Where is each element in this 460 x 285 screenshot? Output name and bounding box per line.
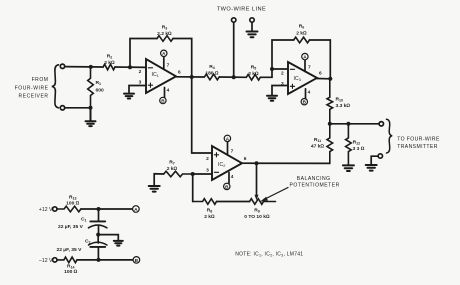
op-amp IC3 xyxy=(288,62,317,94)
node IC3 output xyxy=(328,77,332,81)
node R1 bottom xyxy=(89,106,93,110)
wire two-wire right to ground xyxy=(251,22,253,31)
wire bottom input row xyxy=(65,107,91,109)
power circle A (IC3 pin7) xyxy=(302,53,308,59)
resistor R10 xyxy=(327,79,333,124)
pin 4 stub IC1 xyxy=(164,88,166,98)
label R6 2k xyxy=(296,24,307,37)
svg-text:B: B xyxy=(135,258,139,264)
node two-wire tap xyxy=(232,75,236,79)
terminal +12V xyxy=(53,207,57,211)
svg-text:NOTE: IC1, IC2, IC3, LM741: NOTE: IC1, IC2, IC3, LM741 xyxy=(235,252,303,258)
svg-text:3: 3 xyxy=(139,80,142,86)
wire R7 to ground xyxy=(154,174,164,185)
power circle B (IC1 pin4) xyxy=(160,97,166,103)
terminal -12V xyxy=(53,258,57,262)
wire IC1 output xyxy=(176,76,204,78)
node IC2 pin3 xyxy=(191,172,195,176)
pin 7 stub IC1 xyxy=(163,57,165,70)
label R5 2k xyxy=(248,65,259,78)
label R12 xyxy=(353,140,365,153)
node cap midpoint xyxy=(96,233,100,237)
wiper arrow R9 xyxy=(256,163,258,195)
svg-text:6: 6 xyxy=(319,71,322,77)
svg-text:2: 2 xyxy=(139,69,142,75)
wire R8 to R9 xyxy=(217,201,250,203)
label R8 2k xyxy=(204,208,215,221)
node R1 top xyxy=(89,65,93,69)
resistor R2 xyxy=(103,64,115,70)
label FROM FOUR-WIRE RECEIVER xyxy=(15,77,49,100)
svg-text:7: 7 xyxy=(167,63,170,69)
svg-text:TWO-WIRE LINE: TWO-WIRE LINE xyxy=(217,7,266,13)
wire R4 to R5 xyxy=(219,76,246,78)
svg-text:RECEIVER: RECEIVER xyxy=(19,94,49,100)
node IC2 output xyxy=(255,161,259,165)
ground IC1 pin3 xyxy=(124,94,134,99)
resistor R4 xyxy=(204,74,219,80)
wire R5 to IC3 xyxy=(260,69,288,77)
capacitor C2 xyxy=(97,235,99,243)
svg-text:2.2 kΩ: 2.2 kΩ xyxy=(157,31,172,37)
terminal transmitter bottom xyxy=(378,154,382,158)
svg-text:3: 3 xyxy=(206,168,209,174)
label R7 2k xyxy=(167,160,178,173)
brace right xyxy=(387,119,393,153)
svg-text:FOUR-WIRE: FOUR-WIRE xyxy=(15,86,49,92)
svg-text:2 kΩ: 2 kΩ xyxy=(248,71,259,77)
label R10 3.3k xyxy=(336,97,351,110)
svg-text:A: A xyxy=(134,207,138,213)
terminal IN bottom xyxy=(60,106,64,110)
svg-text:–12 V: –12 V xyxy=(39,258,53,264)
wire IC3 output xyxy=(317,78,330,80)
svg-text:2 kΩ: 2 kΩ xyxy=(296,31,307,37)
pin 4 stub IC2 xyxy=(228,173,230,184)
svg-text:100 Ω: 100 Ω xyxy=(66,200,80,206)
svg-text:4: 4 xyxy=(231,174,234,180)
ground R12 xyxy=(343,165,354,171)
resistor R13 xyxy=(57,206,81,212)
capacitor C1 xyxy=(98,209,100,221)
power circle B (rail) xyxy=(133,257,140,264)
svg-text:100 Ω: 100 Ω xyxy=(64,269,78,275)
power circle B (IC2 pin4) xyxy=(224,183,230,189)
annotation arrow to R9 xyxy=(264,188,288,200)
resistor R5 xyxy=(246,75,260,81)
wire two-wire drop xyxy=(233,22,235,77)
wire IC2 output row to R11 xyxy=(242,162,330,164)
svg-text:FROM: FROM xyxy=(32,77,49,83)
ground IC3 pin3 xyxy=(267,96,277,101)
svg-text:2 kΩ: 2 kΩ xyxy=(204,214,215,220)
svg-text:2: 2 xyxy=(206,156,209,162)
resistor R14 xyxy=(57,257,77,263)
wire top input row xyxy=(65,66,103,68)
ground below R1 xyxy=(86,108,96,126)
resistor R8 xyxy=(193,199,217,205)
wire feedback R3 loop xyxy=(130,39,192,78)
label C1 xyxy=(58,217,87,231)
terminal transmitter top xyxy=(379,122,383,126)
wire -12 rail xyxy=(77,259,133,261)
wire transmitter top row xyxy=(330,123,379,125)
label R1 600 xyxy=(96,80,104,94)
node R12 top xyxy=(346,122,350,126)
power circle A (IC1 pin7) xyxy=(161,50,167,56)
node C2 bottom xyxy=(97,258,101,262)
node R11 top xyxy=(328,122,332,126)
label R14 100 xyxy=(64,263,78,275)
svg-text:+12 V: +12 V xyxy=(39,207,53,213)
potentiometer R9 xyxy=(250,199,276,205)
wire transmitter bottom to ground xyxy=(371,156,378,164)
power circle A (IC2 pin7) xyxy=(224,135,230,141)
svg-text:2 kΩ: 2 kΩ xyxy=(167,166,178,172)
svg-text:22 µF, 35 V: 22 µF, 35 V xyxy=(57,247,83,253)
ground caps xyxy=(114,241,123,246)
label R13 100 xyxy=(66,195,80,207)
resistor R12 xyxy=(346,124,352,165)
svg-text:7: 7 xyxy=(231,149,234,155)
label R2 2k xyxy=(104,54,115,67)
wire +12 rail xyxy=(81,208,133,210)
terminal IN top xyxy=(60,64,64,68)
resistor R1 xyxy=(88,67,94,108)
ground two-wire xyxy=(247,32,258,38)
brace left xyxy=(52,65,59,108)
op-amp IC1 xyxy=(146,59,176,93)
label C2 xyxy=(57,239,91,253)
resistor R6 xyxy=(294,37,310,43)
label R4 180 xyxy=(205,64,219,77)
svg-text:TRANSMITTER: TRANSMITTER xyxy=(397,144,438,150)
ground R7 xyxy=(149,186,160,192)
svg-text:POTENTIOMETER: POTENTIOMETER xyxy=(290,183,340,189)
svg-text:6: 6 xyxy=(244,156,247,162)
wire midpoint to ground xyxy=(98,235,118,241)
ground transmitter xyxy=(366,165,377,171)
node IC3 inverting xyxy=(270,67,274,71)
pin 7 stub IC2 xyxy=(227,142,229,156)
label BALANCING POTENTIOMETER xyxy=(290,176,340,189)
svg-text:6: 6 xyxy=(178,70,181,76)
svg-text:600: 600 xyxy=(96,88,104,94)
pin 4 stub IC3 xyxy=(305,89,307,99)
wire R2 to IC1 xyxy=(115,66,146,68)
wire IC3 pin3 to ground xyxy=(272,86,288,96)
label R11 47k xyxy=(311,137,325,150)
svg-text:4: 4 xyxy=(308,90,311,96)
svg-text:4: 4 xyxy=(167,88,170,94)
svg-text:47 kΩ: 47 kΩ xyxy=(311,144,325,150)
svg-text:0 TO 10 kΩ: 0 TO 10 kΩ xyxy=(244,214,270,220)
svg-text:BALANCING: BALANCING xyxy=(297,176,331,182)
wire feedback R6 loop xyxy=(272,40,330,79)
node feedback tap IC1 xyxy=(128,65,132,69)
svg-text:3 3 Ω: 3 3 Ω xyxy=(353,146,365,152)
wire IC2 pin3 row xyxy=(193,173,212,175)
wire IC1 pin3 to ground xyxy=(129,86,146,93)
svg-text:3.3 kΩ: 3.3 kΩ xyxy=(336,103,351,109)
svg-text:180 Ω: 180 Ω xyxy=(205,71,219,77)
label R9 0 TO 10k xyxy=(244,208,270,221)
terminal two-wire right xyxy=(250,18,254,22)
label R3 2.2k xyxy=(157,25,172,38)
node IC1 output xyxy=(190,75,194,79)
svg-text:TO FOUR-WIRE: TO FOUR-WIRE xyxy=(397,137,440,143)
power circle A (rail) xyxy=(133,206,140,213)
wire IC1 output to IC2 noninverting xyxy=(192,77,212,153)
svg-text:2 kΩ: 2 kΩ xyxy=(104,60,115,66)
svg-text:2: 2 xyxy=(281,71,284,77)
svg-text:7: 7 xyxy=(308,65,311,71)
svg-text:22 µF, 35 V: 22 µF, 35 V xyxy=(58,224,84,230)
node C1 top xyxy=(97,207,101,211)
wire IC2 pin3 down to R8 xyxy=(192,174,194,202)
label TO FOUR-WIRE TRANSMITTER xyxy=(397,137,440,150)
terminal two-wire left xyxy=(232,18,236,22)
op-amp IC2 xyxy=(212,146,242,180)
resistor R11 xyxy=(327,124,333,164)
resistor R3 xyxy=(157,36,173,42)
pin 7 stub IC3 xyxy=(304,60,306,72)
resistor R7 xyxy=(164,171,193,177)
power circle B (IC3 pin4) xyxy=(301,99,307,105)
